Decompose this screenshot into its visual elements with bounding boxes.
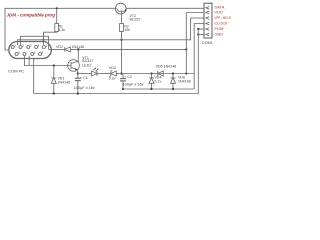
node junction VD1 top bbox=[53, 64, 55, 66]
svg-text:1N4148: 1N4148 bbox=[58, 81, 71, 85]
wire top DATA rail left of VT2 bbox=[5, 8, 116, 50]
node junction VD4 railA bbox=[150, 88, 152, 90]
LED LED1 bbox=[82, 64, 98, 76]
svg-text:1,1k: 1,1k bbox=[59, 28, 66, 32]
svg-text:100µF x 16v: 100µF x 16v bbox=[123, 82, 144, 86]
wire DB9 ground drop to bottom bus bbox=[34, 59, 199, 94]
diode VD2 bbox=[49, 45, 84, 52]
wire LED1 to VD3 bbox=[97, 73, 111, 75]
wire left drop to DB9 shell bbox=[5, 49, 9, 51]
node junction C2 railA bbox=[122, 88, 124, 90]
node junction VD6 top bbox=[172, 72, 174, 74]
node junction R2-W2-C2 bbox=[120, 72, 122, 74]
svg-text:3: 3 bbox=[30, 44, 32, 48]
wire PGM stub bbox=[198, 28, 204, 30]
wire rail A bbox=[123, 88, 194, 90]
wire top DATA rail right of VT2 to CON1 bbox=[127, 7, 205, 9]
wire rail B DB9 to VPP bbox=[18, 18, 191, 45]
node junction VD1 bus bbox=[53, 92, 55, 94]
node junction R1 railB bbox=[42, 39, 44, 41]
wire GND stub and drop to bus bbox=[198, 29, 204, 35]
svg-text:+ C1: + C1 bbox=[80, 76, 88, 80]
svg-text:PGM: PGM bbox=[215, 26, 224, 31]
zener diode VD3 bbox=[109, 66, 117, 81]
svg-text:9: 9 bbox=[42, 51, 44, 55]
svg-text:VD5 1N4148: VD5 1N4148 bbox=[156, 65, 177, 69]
zener diode VD4 bbox=[149, 74, 162, 90]
svg-text:GND: GND bbox=[215, 31, 224, 36]
svg-text:VPP / MCLR: VPP / MCLR bbox=[215, 15, 232, 20]
svg-text:4: 4 bbox=[38, 44, 40, 48]
wire CLOCK riser bbox=[194, 24, 204, 90]
svg-text:CON1: CON1 bbox=[202, 40, 214, 45]
svg-text:BC337: BC337 bbox=[130, 17, 141, 21]
wire VT1 emitter to W2 bbox=[76, 70, 79, 74]
connector CON1 bbox=[202, 3, 214, 45]
svg-text:COM PC: COM PC bbox=[8, 69, 24, 74]
wire DB9 bottom pin7 to VT1 base bbox=[24, 56, 68, 66]
connector COM PC DB9 bbox=[8, 42, 51, 74]
node junction C1 bus bbox=[77, 92, 79, 94]
svg-text:BC337: BC337 bbox=[82, 59, 93, 63]
svg-text:6: 6 bbox=[18, 51, 20, 55]
capacitor C1 bbox=[74, 74, 95, 94]
svg-text:100µF x 16v: 100µF x 16v bbox=[74, 86, 95, 90]
wire R2 bottom down to W2 bbox=[121, 32, 123, 74]
node junction emitter-C1-W2 bbox=[77, 72, 79, 74]
wire R1 bottom to rail B bbox=[44, 32, 57, 46]
svg-text:LED1: LED1 bbox=[82, 64, 91, 68]
svg-text:CLOCK: CLOCK bbox=[215, 20, 229, 25]
transistor VT1 bbox=[68, 56, 94, 71]
svg-text:5: 5 bbox=[46, 44, 48, 48]
transistor VT2 bbox=[115, 3, 140, 21]
wire DB9 bottom pin3 drop to VT1 base rail bbox=[28, 56, 30, 66]
svg-text:JDM - compatible prog: JDM - compatible prog bbox=[7, 12, 56, 17]
wire DB9 pin2 to W1 VD2 anode bbox=[21, 36, 49, 49]
wire VPP stub bbox=[191, 17, 205, 19]
svg-text:10k: 10k bbox=[124, 28, 130, 32]
node junction VT1 collector on W1 bbox=[77, 48, 79, 50]
svg-text:7: 7 bbox=[26, 51, 28, 55]
svg-text:2: 2 bbox=[22, 44, 24, 48]
wire W2 to CLOCK riser bbox=[146, 73, 194, 75]
wire VDD riser bbox=[185, 13, 187, 74]
wire W1 VD2 cathode to VDD riser bbox=[70, 48, 186, 50]
svg-text:+ C2: + C2 bbox=[124, 75, 132, 79]
resistor R2 bbox=[120, 13, 131, 32]
svg-text:VD3: VD3 bbox=[109, 66, 116, 70]
svg-text:1: 1 bbox=[15, 44, 17, 48]
node junction VD4 top bbox=[150, 72, 152, 74]
svg-text:8: 8 bbox=[34, 51, 36, 55]
node junction PGM-GND bbox=[197, 28, 199, 30]
svg-text:VD2: VD2 bbox=[56, 45, 63, 49]
diode VD6 bbox=[171, 74, 191, 90]
diode VD5 bbox=[156, 65, 177, 76]
node junction R1 top bbox=[56, 7, 58, 9]
wire VD3 to VD4 node bbox=[116, 73, 146, 75]
node junction W1-VDD riser bbox=[185, 48, 187, 50]
capacitor C2 bbox=[120, 74, 144, 90]
diode VD1 bbox=[51, 66, 70, 94]
resistor R1 bbox=[55, 8, 66, 32]
wire VT1 collector riser bbox=[77, 49, 79, 61]
node junction VD6 railA bbox=[172, 88, 174, 90]
node junction VDD riser bbox=[185, 72, 187, 74]
node junction GND stub bbox=[197, 33, 199, 35]
node junction R2 railB bbox=[120, 39, 122, 41]
svg-text:5.1v: 5.1v bbox=[155, 79, 162, 83]
svg-text:6.2v: 6.2v bbox=[109, 77, 116, 81]
svg-text:1N4148: 1N4148 bbox=[178, 79, 191, 83]
svg-text:VDD: VDD bbox=[215, 9, 223, 14]
wire W2 emitter rail bbox=[78, 73, 92, 75]
wire VDD stub to CON1 bbox=[186, 12, 204, 14]
